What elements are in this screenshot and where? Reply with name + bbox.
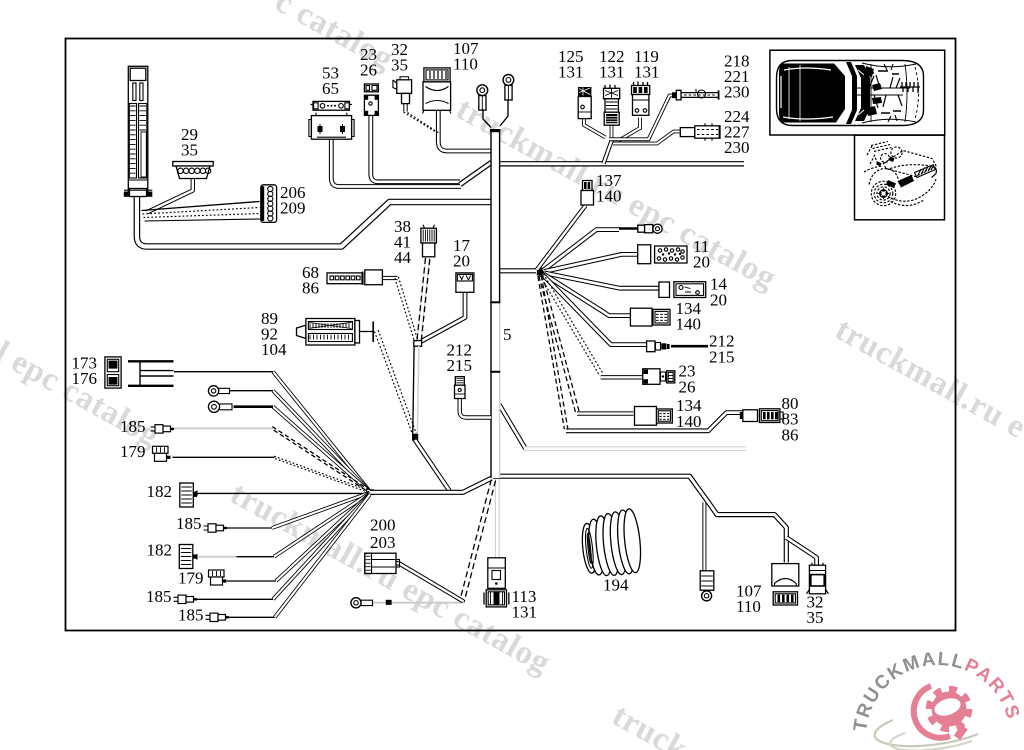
wire: tall-connector trunk run to center bbox=[137, 197, 492, 247]
svg-text:35: 35 bbox=[391, 56, 408, 75]
wire: 68/86 stub bbox=[383, 276, 398, 280]
plug 185 d bbox=[206, 613, 230, 621]
svg-text:20: 20 bbox=[693, 253, 710, 272]
logo truckmallparts bbox=[850, 649, 1024, 750]
connector: 113/131 bbox=[484, 558, 509, 607]
lead: to 218/221/230 bbox=[672, 89, 719, 100]
svg-text:185: 185 bbox=[146, 587, 172, 606]
connector: 38/41/44 bbox=[421, 225, 437, 257]
svg-text:182: 182 bbox=[147, 482, 173, 501]
wire: ring2 bold bbox=[273, 407, 370, 492]
wire: C to right drop system bbox=[493, 476, 786, 562]
car box convertible bbox=[855, 135, 945, 220]
connector: tall multi-pin (left) bbox=[124, 66, 153, 197]
connector: 122/131 bbox=[604, 85, 620, 126]
connector: 206/209 strip bbox=[261, 185, 277, 223]
comb detail right bbox=[900, 82, 920, 93]
svg-text:182: 182 bbox=[147, 541, 173, 560]
lead: to 224/227/230 bbox=[680, 123, 720, 141]
wire: 182b bbox=[274, 493, 369, 556]
convertible body bbox=[864, 142, 936, 206]
watermark row1 fragment a bbox=[269, 0, 399, 78]
logo gray swoosh bbox=[875, 720, 978, 746]
connector: 23/26 right bbox=[643, 369, 675, 385]
logo gear bbox=[930, 690, 968, 728]
watermark row2 fragment a bbox=[0, 335, 166, 455]
wire: 179b bbox=[276, 494, 370, 581]
connector: 14/20 bbox=[659, 282, 706, 298]
plug 182 b bbox=[179, 545, 196, 569]
wire: fan2 to 134/140 second dashed bbox=[539, 276, 576, 412]
wire: fan to 206/209 line 4 bbox=[145, 219, 261, 221]
wire: branch to 32/35 drop bbox=[786, 538, 816, 566]
wire: 122 lead bbox=[610, 125, 614, 140]
svg-text:230: 230 bbox=[724, 138, 750, 157]
windshield dark band bbox=[846, 62, 857, 124]
wire: trunk to fan2 horizontal bbox=[499, 268, 536, 273]
eyelet lead right bbox=[638, 224, 662, 233]
wire: long horizontal right of trunk bbox=[499, 161, 744, 166]
car hood black mass bbox=[779, 64, 845, 123]
svg-text:110: 110 bbox=[736, 597, 761, 616]
wire: ring terminal A lead bbox=[483, 110, 491, 128]
watermark row1 fragment c bbox=[829, 312, 1024, 446]
seats dark bbox=[864, 66, 877, 116]
wire: 89/104 dotted diagonal to B bbox=[375, 332, 413, 435]
svg-text:35: 35 bbox=[807, 608, 824, 627]
wire: 182a straight with arrow bbox=[197, 492, 370, 494]
connector: 107/110 bottom bbox=[772, 564, 799, 605]
car top view outline bbox=[777, 61, 924, 126]
fan1 blob bbox=[366, 489, 374, 495]
wire: 119 lead bbox=[618, 118, 640, 142]
wire: band diagonal to trunk bbox=[460, 162, 492, 184]
svg-text:140: 140 bbox=[676, 315, 702, 334]
bracket: 173/176 bbox=[128, 361, 174, 386]
svg-text:20: 20 bbox=[710, 291, 727, 310]
connector: 125/131 bbox=[578, 87, 591, 119]
svg-text:65: 65 bbox=[322, 79, 339, 98]
svg-text:131: 131 bbox=[558, 63, 584, 82]
connector: 89/92/104 bbox=[297, 319, 374, 346]
wire: 185d bbox=[275, 495, 370, 618]
wire: 68/86 dotted diagonal to A bbox=[395, 278, 415, 341]
plug 179 a bbox=[153, 446, 171, 461]
junction A block bbox=[414, 341, 422, 347]
wire: bundle down to long line bbox=[604, 140, 613, 164]
wire: gray stub at 602 bbox=[373, 602, 461, 604]
watermark row2 fragment b bbox=[224, 476, 556, 682]
plug 185 b bbox=[204, 524, 228, 532]
wire: A to B gray bbox=[413, 346, 414, 437]
svg-text:131: 131 bbox=[512, 603, 538, 622]
connector: 200/203 bbox=[365, 553, 400, 573]
wire: fan2 to eyelet bbox=[543, 230, 619, 271]
wire: 53/65 vertical to band bbox=[331, 139, 461, 187]
connector: ring drop bottom bbox=[700, 571, 714, 601]
svg-text:110: 110 bbox=[453, 55, 478, 74]
svg-text:26: 26 bbox=[360, 61, 377, 80]
wire: ring terminal B lead bbox=[500, 100, 508, 126]
wire: fan2 to 80/83/86 dashed then solid bbox=[538, 276, 565, 429]
svg-text:215: 215 bbox=[709, 348, 735, 367]
svg-text:26: 26 bbox=[679, 378, 696, 397]
connector: 32/35 bottom bbox=[807, 563, 829, 594]
wire: fan2 to 212/215 bbox=[543, 275, 647, 345]
trunk body bbox=[491, 129, 500, 478]
svg-text:209: 209 bbox=[280, 199, 306, 218]
wire: trunk to 113/131 gray bbox=[495, 479, 500, 557]
svg-text:86: 86 bbox=[302, 279, 319, 298]
plug 179 b bbox=[209, 570, 227, 585]
wire: left fan to junction C bbox=[368, 478, 492, 492]
wire: 23/26 vertical to band bbox=[371, 116, 460, 182]
svg-text:86: 86 bbox=[782, 426, 799, 445]
svg-text:131: 131 bbox=[634, 63, 660, 82]
ring terminal B top bbox=[503, 75, 514, 101]
plug 185 a bbox=[151, 425, 175, 433]
frame border bbox=[66, 39, 956, 631]
svg-text:179: 179 bbox=[120, 442, 146, 461]
connector: 173/176 bbox=[105, 357, 121, 388]
wire: 137/140 drop to fan2 bbox=[537, 206, 586, 270]
connector: 212/215 left small bbox=[455, 377, 466, 399]
ring terminal 2 left bbox=[208, 401, 232, 412]
connector: 17/20 bbox=[456, 273, 474, 292]
wire: 107/110 drop to trunk bbox=[438, 111, 491, 151]
wire: 38/41/44 gray drop with dashes bbox=[419, 258, 428, 341]
svg-text:35: 35 bbox=[181, 141, 198, 160]
wire: 200/203 to joint bbox=[396, 563, 464, 601]
svg-text:230: 230 bbox=[724, 83, 750, 102]
wire: 185b bbox=[272, 493, 369, 528]
connector: 107/110 top bbox=[423, 68, 452, 114]
svg-text:140: 140 bbox=[596, 187, 622, 206]
wire: 179a dotted diag bbox=[274, 456, 369, 490]
plug 185 c bbox=[174, 595, 198, 603]
logo swoosh bbox=[914, 686, 950, 738]
junction B block bbox=[412, 434, 418, 441]
connector: 68/86 bbox=[327, 270, 382, 285]
wire: ring drop vertical bbox=[702, 503, 706, 572]
svg-text:215: 215 bbox=[447, 356, 473, 375]
ring terminal A top bbox=[477, 85, 488, 110]
wire: fan to 206/209 line 1 bbox=[142, 202, 260, 211]
wire: 17/20 drop to junction A bbox=[420, 293, 465, 343]
svg-text:200: 200 bbox=[370, 516, 396, 535]
wire: fan2 to 11/20 bbox=[544, 254, 638, 271]
svg-text:44: 44 bbox=[394, 248, 412, 267]
svg-text:185: 185 bbox=[176, 514, 202, 533]
connector: 80/83/86 bbox=[740, 409, 783, 423]
svg-text:194: 194 bbox=[603, 576, 629, 595]
connector: 53/65 small bbox=[311, 101, 352, 110]
connector: 212/215 lead bbox=[647, 341, 670, 352]
wire: fan to 206/209 dashed 2 bbox=[143, 208, 260, 215]
wire: stub end cap bbox=[386, 600, 392, 605]
wire: fan2 to 14/20 bbox=[544, 273, 659, 288]
harness squiggles right bbox=[852, 88, 910, 95]
wire: trunk diag to gray 449 run bbox=[499, 405, 525, 449]
svg-text:131: 131 bbox=[599, 63, 625, 82]
svg-text:185: 185 bbox=[178, 606, 204, 625]
wire: 212/215-left connector lead to trunk bbox=[460, 399, 491, 418]
watermark row2 fragment c bbox=[606, 698, 693, 750]
connector: 29/35 bbox=[173, 162, 213, 179]
wire: C dashed drop to 200/203 joint bbox=[460, 480, 492, 601]
wire: 212/215 bold lead bbox=[671, 345, 708, 348]
ring terminal bottom left bbox=[351, 598, 361, 608]
connector: 11/20 bbox=[638, 245, 687, 264]
wire: 173/176 bbox=[273, 372, 370, 491]
svg-text:20: 20 bbox=[453, 252, 470, 271]
wire: 185a gray + dashed diag bbox=[272, 427, 369, 490]
wire: 185c bbox=[273, 494, 370, 599]
ring terminal 1 left bbox=[208, 386, 229, 396]
connector: 137/140 bbox=[581, 181, 594, 206]
wire: ring1 bbox=[273, 391, 370, 492]
wire: 125 lead bbox=[584, 119, 606, 138]
connector: 23/26 top bbox=[364, 84, 378, 115]
corrugated tube 194 bbox=[579, 508, 643, 578]
wire: 32/35 dashed drop bbox=[403, 104, 407, 112]
connector: 119/131 bbox=[632, 82, 650, 116]
wire: bundle to 218 lead bbox=[609, 96, 674, 140]
watermark row1 fragment b bbox=[450, 91, 782, 297]
connector: 134/140 first bbox=[630, 308, 670, 326]
svg-text:104: 104 bbox=[261, 340, 287, 359]
svg-text:5: 5 bbox=[503, 325, 512, 344]
cabin lines bbox=[862, 63, 916, 123]
wire: B to fan line bbox=[415, 440, 450, 491]
connector: 32/35 top clamp bbox=[393, 77, 412, 104]
car box top view bbox=[770, 50, 945, 135]
wire: fan2 to 23/26 dotted bbox=[540, 275, 599, 374]
plug 182 a bbox=[180, 483, 197, 507]
tail light hatch bbox=[915, 165, 936, 178]
connector: 134/140 second bbox=[635, 407, 673, 426]
svg-text:179: 179 bbox=[178, 569, 204, 588]
svg-text:185: 185 bbox=[120, 417, 146, 436]
wheel bbox=[880, 190, 888, 198]
relay: 53/65 body bbox=[309, 113, 354, 140]
svg-text:176: 176 bbox=[72, 369, 98, 388]
wire: 29/35 drop to fan bbox=[147, 178, 193, 213]
fan2 block bbox=[537, 268, 546, 276]
wire: eyelet bold lead bbox=[619, 227, 638, 230]
svg-text:140: 140 bbox=[676, 412, 702, 431]
wire: fan to 206/209 dashed 3 bbox=[144, 214, 261, 218]
svg-text:203: 203 bbox=[370, 533, 396, 552]
wire: fan2 to 134/140 first bbox=[544, 274, 631, 316]
wire: bundle to 224 lead bbox=[613, 132, 680, 144]
